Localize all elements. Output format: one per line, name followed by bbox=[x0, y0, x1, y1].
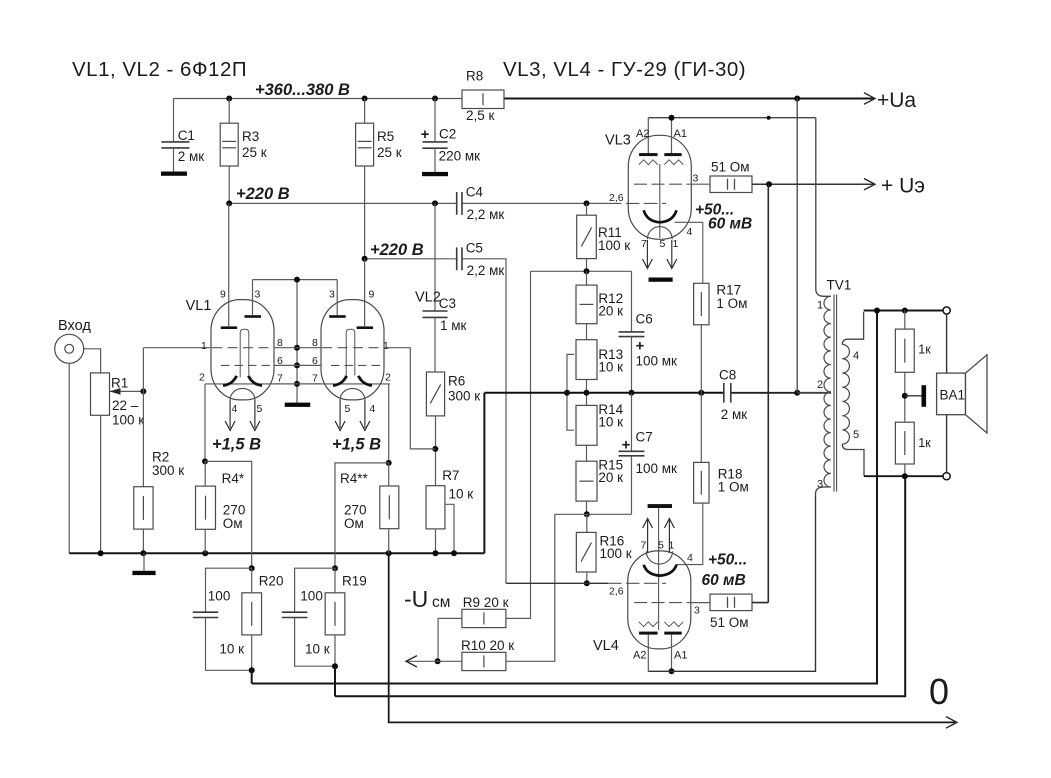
junction R15/R16 bbox=[584, 511, 590, 517]
grid2 dashes VL3 (pin 3) bbox=[634, 183, 689, 185]
svg-text:7: 7 bbox=[312, 373, 318, 385]
wire output bottom line bbox=[864, 475, 943, 477]
svg-text:2,5 к: 2,5 к bbox=[466, 108, 495, 123]
bottom dimple VL3 bbox=[647, 227, 672, 240]
arrow +Uэ bbox=[864, 178, 875, 189]
capacitor C6 (electrolytic) bbox=[631, 271, 633, 332]
wire R19 bottom to feedback line bbox=[334, 666, 336, 696]
wire VL3 pin3 to 51 Ом bbox=[689, 183, 710, 185]
junction wiper on grid drop bbox=[140, 388, 146, 394]
svg-text:Ом: Ом bbox=[223, 516, 243, 531]
junction rail at R4** / zero drop bbox=[386, 550, 392, 556]
resistor R5 bbox=[364, 99, 366, 124]
ground below C1 bbox=[161, 172, 187, 176]
wire grid drop down through R2 bbox=[142, 348, 144, 487]
svg-text:C6: C6 bbox=[636, 312, 653, 327]
junction screen tie top bbox=[294, 277, 300, 283]
svg-text:Ом: Ом bbox=[344, 516, 364, 531]
wire TV1 pin3 lead bbox=[816, 487, 831, 496]
wire 51 Ом to +Uэ arrow bbox=[752, 183, 874, 185]
wire screen tie down to ground bbox=[296, 280, 298, 403]
junction VL2 grid tie bbox=[432, 446, 438, 452]
capacitor C4 bbox=[456, 192, 458, 215]
arrow +Ua bbox=[864, 93, 875, 104]
cathode row line pin2/7 VL2 bbox=[315, 383, 390, 385]
svg-text:A2: A2 bbox=[636, 128, 649, 140]
svg-text:2: 2 bbox=[199, 372, 205, 384]
svg-text:1: 1 bbox=[669, 540, 675, 552]
chassis bar at output divider bbox=[922, 385, 927, 407]
svg-text:9: 9 bbox=[369, 289, 375, 301]
wire VL4 grid line from C5/R16 bbox=[506, 582, 608, 584]
svg-text:A2: A2 bbox=[633, 650, 646, 662]
svg-text:+220 В: +220 В bbox=[370, 241, 424, 259]
svg-text:2,6: 2,6 bbox=[609, 192, 624, 204]
arrowhead R1 wiper bbox=[110, 388, 121, 395]
wire 1k divider middle bbox=[904, 372, 906, 422]
junction VL1 cathode node bbox=[202, 458, 208, 464]
junction R19 top / cap branch bbox=[332, 565, 338, 571]
svg-text:+: + bbox=[421, 126, 430, 143]
svg-text:2: 2 bbox=[385, 372, 391, 384]
wire R20 bottom to feedback line bbox=[251, 670, 253, 683]
wire pin3 lead VL2 bbox=[336, 280, 338, 316]
junction R3 bottom bbox=[226, 200, 232, 206]
svg-text:BA1: BA1 bbox=[940, 388, 966, 403]
wire R10 left lead to -Uсм arrow bbox=[408, 660, 462, 662]
wire VL4 centre stem bbox=[658, 508, 660, 630]
resistor R15 bbox=[586, 445, 588, 461]
wire Uэ bus down to VL4 51 Ом bbox=[767, 184, 769, 602]
svg-text:10 к: 10 к bbox=[305, 642, 330, 657]
svg-text:C8: C8 bbox=[719, 368, 736, 383]
heater arrows VL4 (pointing up) bbox=[647, 520, 649, 553]
resistor 51 Ом (VL3 screen) bbox=[710, 176, 752, 193]
wiper bracket R13/R14 bbox=[567, 354, 574, 430]
resistor R18 bbox=[694, 462, 709, 503]
grid dashes row pin1/8 VL1 bbox=[212, 347, 273, 349]
beam tetrode VL4 envelope bbox=[628, 551, 691, 649]
junction pin7 row bbox=[294, 381, 300, 387]
svg-text:5: 5 bbox=[345, 403, 351, 415]
svg-text:10 к: 10 к bbox=[598, 415, 623, 430]
cathode bowl VL4 bbox=[644, 565, 677, 576]
svg-text:VL3, VL4 - ГУ-29 (ГИ-30): VL3, VL4 - ГУ-29 (ГИ-30) bbox=[503, 58, 746, 81]
svg-text:+220 В: +220 В bbox=[236, 185, 290, 203]
wire top supply rail right of R8 to +Ua arrow bbox=[504, 98, 874, 100]
wire feedback line lower (to output -) bbox=[335, 476, 905, 696]
wire BA1 bottom lead bbox=[946, 415, 948, 473]
wire A1 lead VL3 bbox=[671, 118, 673, 154]
wire VL4 51 Ом up to Uэ bus bbox=[752, 602, 768, 604]
junction top rail at TV1 feed bbox=[794, 96, 800, 102]
TV1 primary winding lower bbox=[824, 392, 831, 487]
resistor R10 bbox=[462, 652, 506, 670]
capacitor C2 (electrolytic) bbox=[434, 99, 436, 142]
wire pin9 lead VL1 bbox=[228, 203, 230, 327]
svg-text:10 к: 10 к bbox=[219, 642, 244, 657]
svg-text:1к: 1к bbox=[918, 343, 931, 357]
svg-text:7: 7 bbox=[641, 540, 647, 552]
svg-text:+: + bbox=[622, 437, 631, 454]
capacitor C1 bbox=[173, 99, 175, 142]
junction output bottom 1k bbox=[902, 473, 908, 479]
svg-text:4: 4 bbox=[687, 552, 693, 564]
anode plate bar pin9 VL1 bbox=[221, 326, 238, 329]
junction R20 bottom bbox=[249, 667, 255, 673]
bottom dimple arc VL2 bbox=[340, 388, 365, 400]
svg-text:1: 1 bbox=[201, 340, 207, 352]
svg-text:20 к: 20 к bbox=[598, 304, 623, 319]
terminal circle output top bbox=[943, 307, 950, 314]
grid2 dashes VL4 (pin 3) bbox=[634, 602, 689, 604]
svg-text:2 мк: 2 мк bbox=[178, 149, 205, 164]
junction small on anode bus bbox=[767, 116, 771, 120]
svg-text:1 Ом: 1 Ом bbox=[718, 480, 749, 495]
junction C6 on mid rail bbox=[629, 390, 635, 396]
svg-text:3: 3 bbox=[817, 479, 823, 491]
junction rail at input drop bbox=[98, 550, 104, 556]
junction pin6 row bbox=[294, 362, 300, 368]
anode plate bar pin3 VL2 bbox=[329, 315, 346, 318]
svg-text:C4: C4 bbox=[466, 185, 484, 200]
junction R11 bottom bbox=[584, 268, 590, 274]
cathode arcs VL1 bbox=[223, 376, 237, 386]
svg-text:300 к: 300 к bbox=[448, 389, 480, 404]
wire TV1 pin1 lead from anode bus bbox=[816, 118, 831, 297]
resistor R8 bbox=[462, 90, 504, 109]
anode bar A2 VL4 bbox=[639, 632, 658, 635]
wire VL2 cathode drop bbox=[388, 384, 390, 463]
resistor R6 bbox=[426, 372, 444, 416]
svg-text:10 к: 10 к bbox=[449, 487, 474, 502]
svg-text:см: см bbox=[432, 594, 450, 611]
heater arrows VL2 bbox=[339, 400, 341, 428]
anode bar A2 VL3 bbox=[639, 153, 658, 156]
wire VL1 grid line (pin 1) bbox=[143, 347, 210, 349]
svg-text:2 мк: 2 мк bbox=[721, 407, 748, 422]
junction divider on mid rail bbox=[584, 390, 590, 396]
wire VL4 anode bus to TV1 pin3 bbox=[648, 496, 815, 671]
junction top rail at R3 bbox=[226, 96, 232, 102]
svg-text:100 к: 100 к bbox=[600, 546, 632, 561]
wire R1 wiper to grid line bbox=[110, 390, 144, 392]
wire VL3 pin4 lead bbox=[675, 221, 703, 223]
anode plate bar pin9 VL2 bbox=[357, 326, 374, 329]
wire R9 right lead to divider column bbox=[506, 271, 531, 618]
svg-text:100: 100 bbox=[208, 589, 231, 604]
wire VL3 centre stem bbox=[659, 164, 661, 238]
svg-text:5: 5 bbox=[257, 403, 263, 415]
svg-text:R3: R3 bbox=[242, 129, 259, 144]
potentiometer R1 bbox=[91, 373, 110, 415]
heater arrows VL1 bbox=[229, 400, 231, 428]
resistor R3 bbox=[228, 99, 230, 124]
cathode row line pin2/7 VL1 bbox=[205, 383, 280, 385]
svg-text:5: 5 bbox=[658, 540, 664, 552]
svg-text:1: 1 bbox=[383, 340, 389, 352]
svg-text:22 –: 22 – bbox=[112, 398, 139, 413]
resistor R4* bbox=[196, 486, 216, 529]
wire feedback line upper (to output +) bbox=[252, 311, 877, 684]
svg-text:3: 3 bbox=[694, 605, 700, 617]
beam tetrode VL3 envelope bbox=[628, 135, 691, 239]
input connector X1 bbox=[55, 334, 84, 363]
svg-text:+1,5 В: +1,5 В bbox=[212, 436, 261, 454]
svg-text:3: 3 bbox=[255, 289, 261, 301]
wire pin7 row between tubes bbox=[274, 383, 321, 385]
capacitor C3 bbox=[422, 310, 447, 312]
anode bar A1 VL3 bbox=[664, 153, 681, 156]
wire R11 bottom header line bbox=[531, 270, 632, 272]
svg-text:R5: R5 bbox=[377, 129, 394, 144]
junction R5 bottom bbox=[362, 256, 368, 262]
svg-text:100 мк: 100 мк bbox=[636, 461, 678, 476]
cathode arcs VL2 bbox=[333, 376, 347, 386]
resistor R17 bbox=[694, 283, 709, 325]
wire zero rail drop and bottom arrow line bbox=[389, 553, 955, 722]
junction R11 top bbox=[584, 200, 590, 206]
wire A2 lead VL3 bbox=[647, 118, 649, 154]
junction rail at R7 bottom bbox=[433, 550, 439, 556]
wire C3 branch down from +220V line bbox=[434, 203, 436, 311]
resistor 1к lower bbox=[895, 422, 914, 464]
bottom dimple arc VL1 bbox=[230, 388, 255, 400]
junction R19 bottom bbox=[332, 663, 338, 669]
svg-text:+1,5 В: +1,5 В bbox=[332, 436, 381, 454]
svg-text:+: + bbox=[636, 338, 645, 355]
capacitor C7 (electrolytic) bbox=[631, 393, 633, 452]
grid dashes row pin1/8 VL2 bbox=[322, 347, 383, 349]
junction top rail at R5 bbox=[362, 96, 368, 102]
wire pin6 row between tubes bbox=[274, 364, 321, 366]
svg-text:4: 4 bbox=[232, 403, 238, 415]
junction R20 top / cap branch bbox=[249, 565, 255, 571]
svg-text:0: 0 bbox=[929, 671, 949, 712]
resistor 51 Ом (VL4 screen) bbox=[710, 594, 752, 611]
resistor R20 bbox=[242, 593, 262, 635]
svg-text:5: 5 bbox=[660, 238, 666, 250]
screen grid chevrons VL4 bbox=[639, 622, 658, 627]
loudspeaker BA1 bbox=[937, 373, 966, 415]
junction VL2 cathode node bbox=[386, 460, 392, 466]
wire top supply rail left of R8 bbox=[174, 98, 463, 100]
svg-text:R10 20 к: R10 20 к bbox=[461, 638, 514, 653]
top dimple VL4 bbox=[646, 551, 672, 564]
svg-text:1 мк: 1 мк bbox=[440, 318, 467, 333]
svg-text:100 мк: 100 мк bbox=[636, 354, 678, 369]
svg-text:300 к: 300 к bbox=[152, 463, 184, 478]
wire vertical from top rail to mid rail bbox=[796, 99, 798, 393]
wire connector shield down to ground rail bbox=[68, 363, 70, 553]
grid1 dashes VL4 (pins 2,6) bbox=[608, 582, 666, 584]
svg-text:R9 20 к: R9 20 к bbox=[463, 595, 509, 610]
wire C5 to corner and down to VL4 grid line bbox=[462, 259, 506, 584]
junction output top 1k bbox=[902, 308, 908, 314]
junction bracket on mid rail bbox=[564, 390, 570, 396]
grid1 dashes VL3 (pins 2,6) bbox=[608, 202, 666, 204]
svg-text:R7: R7 bbox=[442, 468, 459, 483]
resistor R2 bbox=[134, 487, 153, 529]
wire R17 bottom to mid rail bbox=[700, 325, 702, 393]
wire VL2 grid (pin1) to C3/R6 junction bbox=[384, 348, 435, 449]
wire pin9 lead VL2 bbox=[364, 259, 366, 327]
wire R10 right lead to R15/R16 junction bbox=[506, 514, 555, 661]
svg-text:4: 4 bbox=[370, 403, 376, 415]
junction R9/R10 tie bbox=[435, 658, 441, 664]
wire TV1 pin5 lead to output bottom bbox=[842, 444, 864, 476]
resistor R12 bbox=[586, 271, 588, 285]
wire VL3 anode bus to TV1 pin1 bbox=[648, 117, 816, 119]
wire R15/R16 junction line bbox=[555, 513, 632, 515]
TV1 primary winding upper bbox=[824, 296, 831, 392]
resistor R19 bbox=[325, 593, 345, 635]
junction R16 bottom on VL4 grid line bbox=[584, 580, 590, 586]
wire R18 top to mid rail bbox=[700, 393, 702, 463]
junction output top feedback bbox=[874, 308, 880, 314]
resistor R7 bbox=[426, 486, 445, 529]
svg-text:9: 9 bbox=[220, 289, 226, 301]
screen grid chevrons VL3 bbox=[639, 160, 658, 165]
svg-text:7: 7 bbox=[641, 238, 647, 250]
TV1 secondary winding bbox=[842, 345, 849, 445]
wire VL2 cathode to feedback branch R19 bbox=[335, 463, 389, 568]
svg-text:220 мк: 220 мк bbox=[439, 149, 481, 164]
svg-text:VL3: VL3 bbox=[605, 133, 631, 149]
junction mid rail TV1 drop bbox=[794, 390, 800, 396]
svg-text:R19: R19 bbox=[342, 574, 367, 589]
svg-text:4: 4 bbox=[687, 226, 693, 238]
ground between tubes bbox=[285, 403, 311, 407]
svg-text:1: 1 bbox=[817, 300, 823, 312]
junction A1 VL4 bbox=[669, 668, 675, 674]
terminal circle output bottom bbox=[943, 473, 950, 480]
tube envelope VL1 bbox=[211, 300, 274, 400]
svg-text:R4*: R4* bbox=[222, 471, 245, 486]
svg-text:1: 1 bbox=[673, 238, 679, 250]
wire R7 wiper tap to ground rail bbox=[445, 504, 454, 553]
wire divider mid to chassis bar bbox=[905, 395, 922, 397]
ground symbol under rail bbox=[143, 553, 145, 571]
svg-text:100 к: 100 к bbox=[598, 238, 630, 253]
TV1 core bbox=[833, 295, 835, 492]
capacitor 100 (R20 bypass) bbox=[206, 568, 252, 612]
cathode bowl VL3 bbox=[644, 210, 677, 222]
wire VL1 cathode to feedback branch R20 bbox=[205, 461, 252, 568]
anode plate bar pin3 VL1 bbox=[245, 315, 262, 318]
capacitor 100 (R19 bypass) bbox=[295, 568, 335, 612]
junction C3 branch on +220V line bbox=[432, 200, 438, 206]
wire VL4 pin3 to 51 Ом bbox=[689, 602, 710, 604]
wire +220V line from R3 to C4 bbox=[229, 202, 457, 204]
junction mid rail R17/R18 bbox=[698, 390, 704, 396]
svg-text:1к: 1к bbox=[918, 436, 931, 450]
svg-text:2,6: 2,6 bbox=[609, 586, 624, 598]
svg-text:+ Uэ: + Uэ bbox=[881, 175, 925, 198]
arrow 0 terminal bbox=[946, 717, 957, 728]
svg-text:C2: C2 bbox=[439, 127, 456, 142]
svg-text:VL1: VL1 bbox=[186, 298, 212, 314]
resistor R14 bbox=[586, 380, 588, 393]
svg-text:25 к: 25 к bbox=[242, 145, 267, 160]
svg-text:Вход: Вход bbox=[58, 318, 91, 334]
wire TV1 pin4 lead to output top bbox=[842, 312, 863, 345]
wire R9 left lead down to R10 line bbox=[438, 618, 462, 661]
resistor R9 bbox=[462, 609, 506, 627]
junction rail at R4* bbox=[202, 550, 208, 556]
wire connector to R1 bbox=[84, 349, 101, 373]
svg-text:3: 3 bbox=[693, 173, 699, 185]
wire +220V line from C4 to VL3 grid bbox=[462, 202, 608, 204]
svg-text:51 Ом: 51 Ом bbox=[711, 160, 750, 175]
resistor R11 bbox=[586, 203, 588, 215]
svg-text:60 мВ: 60 мВ bbox=[708, 216, 752, 233]
capacitor C5 bbox=[456, 247, 458, 270]
svg-text:100: 100 bbox=[300, 589, 323, 604]
wire VL3 pin4 down to R17 bbox=[702, 222, 704, 283]
heater arrows VL3 bbox=[646, 240, 648, 267]
ground below C2 bbox=[422, 172, 448, 176]
svg-text:TV1: TV1 bbox=[827, 278, 852, 293]
svg-text:3: 3 bbox=[329, 289, 335, 301]
svg-text:100 к: 100 к bbox=[112, 413, 144, 428]
wire mid rail (TV1 centre tap feed) bbox=[484, 392, 723, 394]
wire pins 3 of VL1,VL2 tie line bbox=[253, 279, 338, 281]
svg-text:+50...: +50... bbox=[708, 552, 747, 569]
svg-text:60 мВ: 60 мВ bbox=[702, 572, 746, 589]
grid dashes row pin6 VL1 bbox=[221, 364, 272, 366]
svg-text:A1: A1 bbox=[674, 128, 687, 140]
resistor R16 bbox=[586, 514, 588, 532]
anode bar A1 VL4 bbox=[664, 632, 681, 635]
svg-text:+360...380 В: +360...380 В bbox=[255, 81, 350, 99]
svg-text:VL4: VL4 bbox=[593, 638, 619, 654]
svg-text:C1: C1 bbox=[178, 128, 195, 143]
junction top rail at C2 bbox=[432, 96, 438, 102]
svg-text:+Ua: +Ua bbox=[877, 89, 916, 112]
svg-text:2,2 мк: 2,2 мк bbox=[467, 263, 505, 278]
svg-text:2: 2 bbox=[817, 379, 823, 391]
junction rail at R7 tap bbox=[451, 550, 457, 556]
svg-text:10 к: 10 к bbox=[598, 360, 623, 375]
svg-text:51 Ом: 51 Ом bbox=[710, 615, 749, 630]
capacitor C8 bbox=[723, 383, 725, 403]
svg-text:C3: C3 bbox=[439, 296, 456, 311]
svg-text:4: 4 bbox=[853, 350, 859, 362]
svg-text:20 к: 20 к bbox=[598, 470, 623, 485]
junction Uэ bus bbox=[766, 181, 772, 187]
wire R6 bottom to R7 bbox=[435, 416, 437, 486]
svg-text:R1: R1 bbox=[111, 376, 128, 391]
resistor R4** bbox=[380, 486, 399, 529]
wire TV1 pin2 centre tap bbox=[797, 392, 831, 394]
svg-text:C5: C5 bbox=[466, 241, 483, 256]
svg-text:-U: -U bbox=[404, 586, 428, 612]
svg-text:R20: R20 bbox=[259, 574, 284, 589]
svg-text:R4**: R4** bbox=[340, 471, 369, 486]
ground below VL3 bbox=[649, 278, 673, 282]
junction 1k divider mid bbox=[902, 393, 908, 399]
wire pin8 row between tubes bbox=[274, 347, 321, 349]
wire R18 bottom to VL4 pin4 bbox=[676, 503, 703, 564]
inner anode cylinder VL2 bbox=[346, 329, 355, 377]
wire R7 bottom to ground rail bbox=[435, 529, 437, 553]
resistor 1к upper bbox=[904, 311, 906, 330]
svg-text:7: 7 bbox=[277, 373, 283, 385]
wire output top line bbox=[864, 310, 944, 312]
resistor R13 bbox=[586, 324, 588, 340]
svg-text:25 к: 25 к bbox=[377, 145, 402, 160]
